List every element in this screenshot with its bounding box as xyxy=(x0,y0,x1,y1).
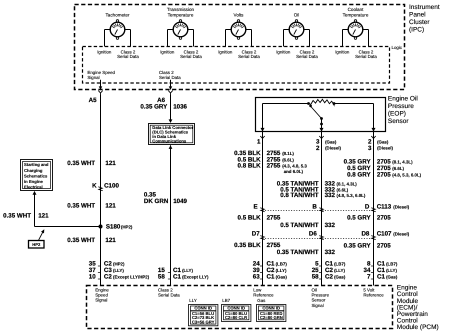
svg-text:C1: C1 xyxy=(173,274,181,281)
svg-text:1: 1 xyxy=(257,139,261,146)
svg-text:Tachometer: Tachometer xyxy=(106,13,130,18)
svg-text:D6: D6 xyxy=(309,231,317,238)
svg-text:(4.3, 4.8, 5.3: (4.3, 4.8, 5.3 xyxy=(282,164,307,169)
svg-text:A5: A5 xyxy=(89,97,97,104)
svg-text:Gas: Gas xyxy=(257,298,266,303)
svg-text:0.35 BLK: 0.35 BLK xyxy=(234,242,261,249)
svg-text:(Gas): (Gas) xyxy=(325,139,337,144)
svg-text:(HP2): (HP2) xyxy=(121,225,133,230)
svg-text:(Gas): (Gas) xyxy=(276,275,288,280)
svg-text:in Engine: in Engine xyxy=(24,179,44,184)
svg-text:Ignition: Ignition xyxy=(97,49,112,54)
svg-text:C2=80 GRN: C2=80 GRN xyxy=(260,315,283,320)
svg-text:(EOP): (EOP) xyxy=(388,111,406,118)
svg-text:Oil: Oil xyxy=(294,13,300,18)
svg-text:(LB7): (LB7) xyxy=(334,262,346,267)
svg-text:2755: 2755 xyxy=(267,242,281,249)
svg-text:0.5 BLK: 0.5 BLK xyxy=(238,214,262,221)
svg-text:(Except LLY): (Except LLY) xyxy=(182,275,209,280)
svg-text:(6.6L): (6.6L) xyxy=(282,157,294,162)
svg-text:(IPC): (IPC) xyxy=(409,26,424,33)
svg-text:332: 332 xyxy=(325,249,336,256)
svg-text:and 6.0L): and 6.0L) xyxy=(284,169,304,174)
svg-text:(Except LLY/HP2): (Except LLY/HP2) xyxy=(113,275,150,280)
svg-text:0.8 GRY: 0.8 GRY xyxy=(347,171,371,178)
svg-text:(8.1, 4.3L): (8.1, 4.3L) xyxy=(337,181,358,186)
svg-text:121: 121 xyxy=(105,203,116,210)
svg-text:0.5 GRY: 0.5 GRY xyxy=(347,214,371,221)
svg-text:B: B xyxy=(312,203,317,210)
svg-text:Ignition: Ignition xyxy=(276,49,291,54)
svg-text:(4.8, 5.3, 6.0L): (4.8, 5.3, 6.0L) xyxy=(337,193,366,198)
svg-text:Module (PCM): Module (PCM) xyxy=(397,324,439,331)
svg-text:332: 332 xyxy=(325,222,336,229)
svg-text:1049: 1049 xyxy=(173,198,187,205)
svg-text:Charging: Charging xyxy=(24,168,43,173)
svg-text:C3=56 GRY: C3=56 GRY xyxy=(192,319,215,324)
svg-text:58: 58 xyxy=(158,274,165,281)
svg-text:Serial Data: Serial Data xyxy=(296,54,318,59)
svg-text:Volts: Volts xyxy=(234,13,245,18)
svg-text:Communications: Communications xyxy=(152,138,187,143)
svg-text:D8: D8 xyxy=(361,231,369,238)
svg-text:58: 58 xyxy=(312,274,319,281)
svg-text:(LB7): (LB7) xyxy=(276,262,288,267)
svg-text:(Diesel): (Diesel) xyxy=(325,146,341,151)
svg-text:C100: C100 xyxy=(104,183,119,190)
svg-text:(HP2): (HP2) xyxy=(113,262,125,267)
svg-text:Signal: Signal xyxy=(87,75,99,80)
svg-text:(Diesel): (Diesel) xyxy=(377,146,393,151)
svg-text:0.35 GRY: 0.35 GRY xyxy=(344,243,372,250)
svg-text:0.5 TAN/WHT: 0.5 TAN/WHT xyxy=(280,222,319,229)
svg-text:Serial Data: Serial Data xyxy=(238,54,260,59)
svg-text:2: 2 xyxy=(316,145,320,152)
svg-text:Ignition: Ignition xyxy=(160,49,175,54)
svg-text:(LLY): (LLY) xyxy=(334,268,345,273)
svg-text:LLY: LLY xyxy=(189,298,197,303)
svg-text:(Gas): (Gas) xyxy=(334,275,346,280)
svg-text:Electrical: Electrical xyxy=(24,184,43,189)
svg-text:(LLY): (LLY) xyxy=(276,268,287,273)
svg-text:HP2: HP2 xyxy=(32,242,41,247)
svg-text:C113: C113 xyxy=(377,203,392,210)
svg-text:(6.6L): (6.6L) xyxy=(337,187,349,192)
svg-text:(6.6L): (6.6L) xyxy=(392,166,404,171)
svg-text:(Diesel): (Diesel) xyxy=(393,204,409,209)
svg-text:2755: 2755 xyxy=(267,163,281,170)
svg-text:63: 63 xyxy=(253,274,260,281)
svg-text:Engine Oil: Engine Oil xyxy=(388,96,419,103)
svg-text:C2: C2 xyxy=(104,274,112,281)
svg-text:0.35 GRY: 0.35 GRY xyxy=(140,104,168,111)
svg-text:Panel: Panel xyxy=(409,12,426,19)
svg-text:(LLY): (LLY) xyxy=(386,268,397,273)
svg-text:10: 10 xyxy=(89,274,96,281)
svg-text:121: 121 xyxy=(105,237,116,244)
svg-text:Coolant: Coolant xyxy=(348,7,365,12)
svg-text:121: 121 xyxy=(38,212,49,219)
svg-text:S180: S180 xyxy=(106,224,121,231)
svg-text:Pressure: Pressure xyxy=(388,103,414,110)
svg-text:Logic: Logic xyxy=(392,45,403,50)
svg-text:0.35 WHT: 0.35 WHT xyxy=(67,203,95,210)
svg-text:2755: 2755 xyxy=(267,214,281,221)
svg-text:D7: D7 xyxy=(252,231,260,238)
svg-text:(Gas): (Gas) xyxy=(386,275,398,280)
svg-text:C1: C1 xyxy=(377,274,385,281)
svg-text:Signal: Signal xyxy=(312,303,324,308)
svg-text:C1: C1 xyxy=(267,274,275,281)
svg-text:LB7: LB7 xyxy=(222,298,230,303)
svg-text:Reference: Reference xyxy=(253,293,274,298)
svg-text:0.35 WHT: 0.35 WHT xyxy=(3,212,31,219)
svg-text:7: 7 xyxy=(367,274,371,281)
svg-text:E: E xyxy=(253,203,257,210)
svg-text:Schematics: Schematics xyxy=(24,173,48,178)
svg-text:(LLY): (LLY) xyxy=(182,268,193,273)
svg-text:Temperature: Temperature xyxy=(168,13,194,18)
svg-text:0.8 TAN/WHT: 0.8 TAN/WHT xyxy=(280,192,319,199)
svg-text:Serial Data: Serial Data xyxy=(159,75,181,80)
svg-text:121: 121 xyxy=(105,160,116,167)
svg-text:Serial Data: Serial Data xyxy=(355,54,377,59)
svg-text:C2: C2 xyxy=(325,274,333,281)
svg-text:Serial Data: Serial Data xyxy=(158,293,180,298)
svg-text:0.35 WHT: 0.35 WHT xyxy=(67,237,95,244)
svg-text:0.35 TAN/WHT: 0.35 TAN/WHT xyxy=(277,249,319,256)
svg-text:2705: 2705 xyxy=(377,171,391,178)
svg-text:1036: 1036 xyxy=(173,104,187,111)
svg-text:(LLY): (LLY) xyxy=(113,268,124,273)
svg-text:Reference: Reference xyxy=(363,293,384,298)
svg-text:Starting and: Starting and xyxy=(24,162,49,167)
svg-text:(4.8, 5.3, 6.0L): (4.8, 5.3, 6.0L) xyxy=(392,172,421,177)
svg-text:(LB7): (LB7) xyxy=(386,262,398,267)
svg-text:(8.1L): (8.1L) xyxy=(282,151,294,156)
svg-text:Cluster: Cluster xyxy=(409,19,430,26)
svg-text:Serial Data: Serial Data xyxy=(117,54,139,59)
svg-text:C2=80 CLR: C2=80 CLR xyxy=(225,315,247,320)
svg-text:0.35 WHT: 0.35 WHT xyxy=(67,160,95,167)
svg-text:(8.1, 4.3L): (8.1, 4.3L) xyxy=(392,159,413,164)
svg-text:(Diesel): (Diesel) xyxy=(393,232,409,237)
svg-text:Ignition: Ignition xyxy=(335,49,350,54)
svg-text:C107: C107 xyxy=(377,231,392,238)
svg-text:DK GRN: DK GRN xyxy=(144,198,169,205)
svg-text:332: 332 xyxy=(325,192,336,199)
svg-text:Instrument: Instrument xyxy=(409,4,440,11)
svg-text:Sensor: Sensor xyxy=(388,118,409,125)
svg-text:2705: 2705 xyxy=(377,214,391,221)
svg-text:2705: 2705 xyxy=(377,243,391,250)
svg-text:Ignition: Ignition xyxy=(218,49,233,54)
svg-text:Serial Data: Serial Data xyxy=(180,54,202,59)
svg-text:Transmission: Transmission xyxy=(167,7,195,12)
svg-text:K: K xyxy=(92,183,97,190)
svg-text:Temperature: Temperature xyxy=(343,13,369,18)
svg-text:(Gas): (Gas) xyxy=(377,139,389,144)
svg-text:0.8 BLK: 0.8 BLK xyxy=(238,163,262,170)
svg-text:3: 3 xyxy=(368,145,372,152)
svg-text:D: D xyxy=(365,203,370,210)
svg-text:Signal: Signal xyxy=(95,298,107,303)
